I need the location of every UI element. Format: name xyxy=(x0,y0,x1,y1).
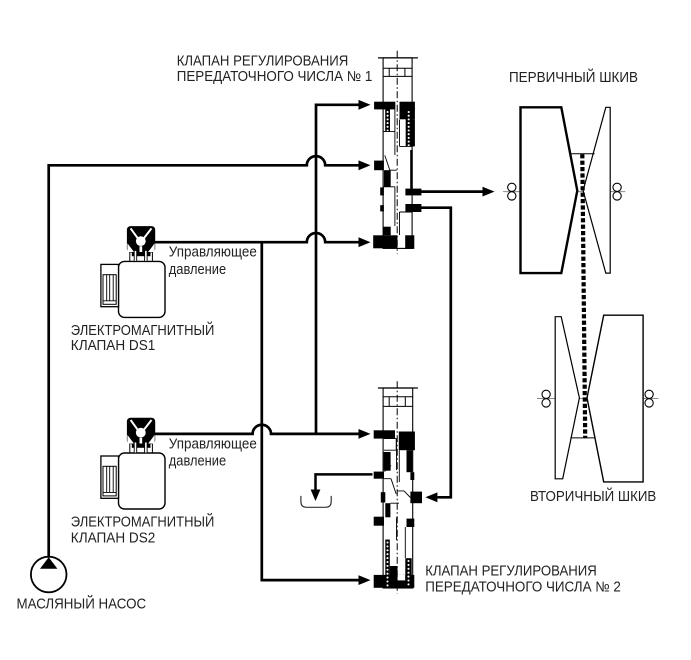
valve1 left ear a xyxy=(380,187,384,195)
valve1 adjusting screw band xyxy=(383,68,412,76)
svg-text:ПЕРЕДАТОЧНОГО ЧИСЛА № 2: ПЕРЕДАТОЧНОГО ЧИСЛА № 2 xyxy=(425,580,621,596)
wire pump line: oil pump up and right to valve1 port2, hump over bus xyxy=(49,156,360,557)
valve2 adjusting screw band xyxy=(383,397,413,407)
valve1 port2 ear xyxy=(374,161,384,171)
secondary pulley left sheave xyxy=(555,317,579,479)
ratio control valve 2 body xyxy=(383,388,413,588)
secondary pulley right sheave xyxy=(587,315,643,482)
oil pump triangle xyxy=(40,557,57,569)
secondary pulley centerline xyxy=(537,398,658,400)
primary pulley bearings xyxy=(508,183,622,200)
valve1 output ear 1 xyxy=(405,189,421,196)
valve2 drain ear xyxy=(374,472,384,479)
secondary pulley bearings xyxy=(542,390,653,407)
arrow into primary pulley xyxy=(483,187,495,197)
valve2 axis line xyxy=(396,381,398,593)
svg-text:Управляющее: Управляющее xyxy=(169,245,257,261)
wire DS2 control pressure to valve2 port1, hump over DS1 branch xyxy=(155,425,361,434)
primary belt top line xyxy=(572,153,595,155)
valve1 spool outline upper xyxy=(383,102,412,171)
valve1 spring left xyxy=(385,109,390,132)
arrow into valve1 port1 xyxy=(359,100,371,110)
valve2 input ear right xyxy=(410,492,422,504)
svg-text:ПЕРЕДАТОЧНОГО ЧИСЛА № 1: ПЕРЕДАТОЧНОГО ЧИСЛА № 1 xyxy=(177,69,373,85)
valve2 right column top xyxy=(407,450,413,472)
svg-text:КЛАПАН РЕГУЛИРОВАНИЯ: КЛАПАН РЕГУЛИРОВАНИЯ xyxy=(425,564,597,580)
valve2 spring right xyxy=(405,558,411,586)
arrow into valve1 port2 xyxy=(359,160,371,170)
wire DS1 branch down to valve2 bottom port xyxy=(262,242,360,580)
valve2 spool outline xyxy=(384,439,410,558)
solenoid valve DS2 xyxy=(101,418,165,509)
primary pulley centerline xyxy=(503,191,625,193)
valve1 left spool column xyxy=(384,170,391,187)
wire valve1 output to primary pulley xyxy=(421,190,484,193)
valve1 port1 flange right xyxy=(400,102,415,110)
arrow into valve2 right port xyxy=(425,492,437,502)
valve1 output ear 2 xyxy=(405,204,421,212)
svg-text:МАСЛЯНЫЙ НАСОС: МАСЛЯНЫЙ НАСОС xyxy=(17,594,147,612)
svg-text:ПЕРВИЧНЫЙ ШКИВ: ПЕРВИЧНЫЙ ШКИВ xyxy=(509,68,638,86)
wire DS1 control pressure to valve1 port3, hump over bus xyxy=(155,233,361,242)
valve2 center black piece xyxy=(390,566,398,576)
ratio control valve 1 body xyxy=(383,58,412,249)
valve1 left ear b xyxy=(380,205,384,211)
svg-text:КЛАПАН DS1: КЛАПАН DS1 xyxy=(71,338,156,354)
valve2 left ear 2 xyxy=(374,517,384,526)
valve2 left column b xyxy=(385,503,390,517)
svg-text:давление: давление xyxy=(169,453,226,469)
arrow into tank xyxy=(311,490,321,502)
valve1 right column xyxy=(410,150,413,189)
oil pump circle xyxy=(31,557,67,593)
valve1 bottom flange left xyxy=(373,235,397,248)
primary pulley right sheave xyxy=(583,107,610,273)
valve2 spool square outline xyxy=(384,439,396,451)
valve2 port1 flange left xyxy=(374,430,395,438)
valve2 right block xyxy=(399,432,415,451)
svg-text:КЛАПАН DS2: КЛАПАН DS2 xyxy=(71,531,156,547)
wire bus: vertical net from valve1 port1 down to DS2 wire xyxy=(316,105,360,434)
svg-text:давление: давление xyxy=(169,262,226,278)
valve1 axis line xyxy=(396,51,398,254)
valve2 spring left xyxy=(385,540,390,587)
svg-text:ЭЛЕКТРОМАГНИТНЫЙ: ЭЛЕКТРОМАГНИТНЫЙ xyxy=(71,513,215,531)
primary pulley left sheave xyxy=(521,107,578,273)
valve2 top cap line xyxy=(378,387,418,389)
TANK xyxy=(17,54,657,613)
valve1 spring right xyxy=(406,109,412,146)
svg-text:Управляющее: Управляющее xyxy=(169,436,257,452)
valve1 bottom spool black xyxy=(383,227,390,236)
valve1 spool outline lower xyxy=(383,187,412,235)
svg-text:ЭЛЕКТРОМАГНИТНЫЙ: ЭЛЕКТРОМАГНИТНЫЙ xyxy=(71,321,215,339)
arrow into valve2 port1 xyxy=(359,429,371,439)
svg-text:КЛАПАН РЕГУЛИРОВАНИЯ: КЛАПАН РЕГУЛИРОВАНИЯ xyxy=(177,54,349,70)
valve1 top cap line xyxy=(378,57,418,59)
wire valve1 output2 down to valve2 right port xyxy=(421,208,451,498)
valve2 right ear bump xyxy=(410,472,414,480)
arrow into valve2 bottom port xyxy=(359,575,371,585)
solenoid valve DS1 xyxy=(101,227,165,318)
tank symbol xyxy=(301,496,331,507)
secondary belt bottom line xyxy=(570,437,594,439)
valve1 bottom flange right xyxy=(405,235,414,249)
valve2 left bump xyxy=(381,492,386,502)
arrow into valve1 port3 xyxy=(359,237,371,247)
valve2 left column a xyxy=(384,452,391,471)
svg-text:ВТОРИЧНЫЙ ШКИВ: ВТОРИЧНЫЙ ШКИВ xyxy=(530,487,656,505)
wire drain from valve2 to tank xyxy=(316,474,373,490)
belt xyxy=(582,154,585,438)
valve2 bottom flange xyxy=(374,575,415,588)
valve1 right block xyxy=(400,108,415,119)
valve2 right block b xyxy=(407,519,415,527)
valve1 port1 flange left xyxy=(374,102,395,110)
